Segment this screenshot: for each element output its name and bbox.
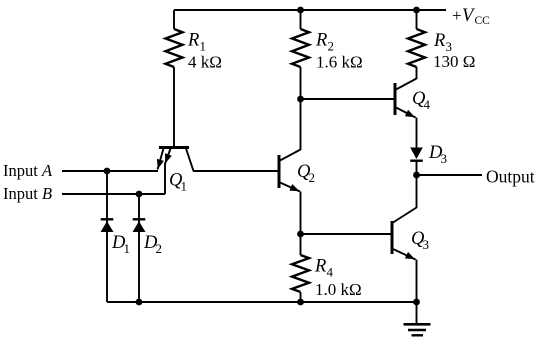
svg-text:R: R xyxy=(433,31,445,51)
svg-text:R: R xyxy=(315,31,327,51)
svg-text:4 kΩ: 4 kΩ xyxy=(188,53,222,72)
svg-text:1.0 kΩ: 1.0 kΩ xyxy=(315,280,362,299)
svg-text:3: 3 xyxy=(423,237,430,252)
svg-text:130 Ω: 130 Ω xyxy=(433,52,475,71)
svg-text:+: + xyxy=(452,6,462,25)
svg-text:Input A: Input A xyxy=(3,161,53,180)
svg-text:1.6 kΩ: 1.6 kΩ xyxy=(316,53,363,72)
svg-text:R: R xyxy=(187,31,199,51)
svg-text:R: R xyxy=(314,257,326,277)
svg-text:1: 1 xyxy=(200,39,207,54)
svg-text:Output: Output xyxy=(486,167,535,187)
svg-text:3: 3 xyxy=(441,151,448,166)
svg-text:CC: CC xyxy=(475,15,491,27)
svg-text:Input B: Input B xyxy=(3,184,52,203)
svg-text:4: 4 xyxy=(424,97,431,112)
svg-text:2: 2 xyxy=(309,170,316,185)
svg-text:2: 2 xyxy=(156,241,163,256)
svg-text:1: 1 xyxy=(124,241,131,256)
svg-text:1: 1 xyxy=(181,179,188,194)
svg-text:4: 4 xyxy=(327,265,334,280)
svg-text:2: 2 xyxy=(328,39,335,54)
